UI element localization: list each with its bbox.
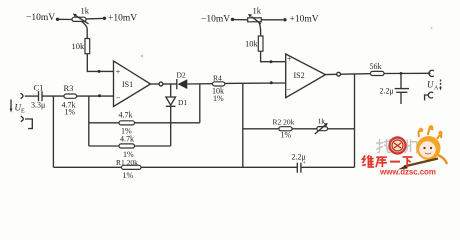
watermark: round badge: [388, 136, 406, 154]
wire junction down to feedback row1: [199, 84, 201, 123]
svg-text:R1 20k: R1 20k: [116, 158, 138, 167]
junction dot on - input wire: [98, 94, 101, 97]
wire pot1 right lead: [86, 17, 103, 20]
resistor 56k body: [371, 71, 385, 75]
potentiometer 1k (row) body: [317, 127, 328, 131]
svg-text:www.dzsc.com: www.dzsc.com: [379, 168, 436, 177]
potentiometer P1 1k body: [72, 17, 86, 21]
svg-text:1k: 1k: [253, 6, 262, 16]
svg-text:R4: R4: [213, 74, 222, 83]
junction dot on + input wire: [98, 70, 101, 73]
svg-text:−: −: [116, 93, 121, 102]
speck: [141, 55, 143, 57]
wire IS1 output: [151, 83, 159, 85]
wire terminal to C1: [25, 95, 39, 97]
svg-text:−10mV: −10mV: [26, 13, 55, 23]
resistor R4 body: [213, 82, 225, 86]
wire 56k to output terminal: [384, 72, 431, 74]
capacitor 2.2u (bottom) plates: [296, 163, 298, 173]
capacitor 2.2u output plates: [395, 88, 409, 90]
resistor 4.7k row2 body: [119, 144, 135, 148]
svg-text:1%: 1%: [123, 171, 134, 180]
pot arrow: [315, 125, 326, 134]
wire junction down to R1 row: [52, 96, 54, 167]
svg-text:R2 20k: R2 20k: [273, 118, 295, 127]
output terminal upper: [429, 70, 434, 76]
watermark: red text wei ku yi xia: [362, 155, 412, 167]
feedback row2 wire: [89, 145, 171, 147]
potentiometer P2 wiper arrow: [252, 17, 261, 24]
svg-text:−: −: [287, 86, 292, 95]
wire feedback vertical: [354, 74, 356, 167]
wire to D2: [163, 83, 177, 85]
input terminal upper: [21, 93, 24, 98]
junction dot: [400, 72, 403, 75]
op-amp IS1: [114, 61, 151, 107]
svg-text:E: E: [21, 109, 25, 115]
svg-text:+10mV: +10mV: [108, 14, 137, 24]
wire 10k to IS2 + input: [261, 51, 286, 62]
wire 10k to IS1 + input: [87, 54, 113, 72]
wire R4 to IS2 - input: [225, 82, 286, 84]
potentiometer P2 1k body: [248, 18, 262, 22]
svg-text:1%: 1%: [281, 131, 292, 140]
wire - node down to feedback rows: [88, 96, 90, 146]
svg-text:1%: 1%: [213, 94, 224, 103]
input terminal lower: [21, 116, 24, 121]
resistor 10k (vertical, left): [85, 39, 90, 54]
svg-text:1k: 1k: [318, 117, 326, 126]
svg-text:4.7k: 4.7k: [119, 111, 133, 120]
svg-text:1k: 1k: [81, 6, 90, 16]
wire C1 to R3: [42, 95, 64, 97]
wire cap stub down: [400, 92, 402, 104]
node dot left of P2: [231, 18, 234, 21]
svg-text:IS2: IS2: [294, 71, 305, 80]
svg-text:2.2μ: 2.2μ: [380, 87, 394, 96]
diode D2 (horizontal, cathode left): [176, 79, 178, 89]
resistor R1 20k body: [122, 165, 142, 169]
svg-text:10k: 10k: [72, 41, 86, 51]
resistor 10k (vertical, right): [258, 36, 263, 51]
wire P2 wiper down: [259, 22, 261, 36]
watermark: gray char pian: [405, 140, 417, 154]
svg-text:IS1: IS1: [122, 80, 133, 89]
svg-text:56k: 56k: [370, 62, 382, 71]
wire D2 to R4: [187, 83, 212, 85]
wire P1 wiper down: [82, 21, 88, 38]
svg-text:10k: 10k: [245, 39, 259, 49]
output node circle: [159, 82, 163, 86]
potentiometer P1 wiper arrow: [76, 16, 89, 24]
wire down to output cap: [400, 73, 402, 88]
op-amp IS2: [286, 54, 326, 98]
node dot right of P1: [103, 17, 106, 20]
svg-text:+10mV: +10mV: [290, 15, 319, 25]
capacitor C1 plates: [38, 91, 40, 101]
R2 row wire: [243, 128, 355, 130]
wire lower terminal hook: [25, 119, 32, 129]
svg-text:4.7k: 4.7k: [120, 135, 134, 144]
speck: [431, 27, 433, 29]
resistor 4.7k row1 body: [119, 121, 135, 125]
output node circle: [337, 72, 341, 76]
wire to 56k: [341, 73, 371, 76]
node dot right of P2: [283, 18, 286, 21]
svg-text:1%: 1%: [65, 108, 76, 117]
svg-text:C1: C1: [34, 83, 44, 93]
bottom row wire: [53, 166, 297, 168]
wire: [59, 18, 73, 20]
wire R3 to IS1 - input: [77, 95, 114, 97]
svg-text:D2: D2: [177, 71, 186, 80]
watermark: mascot: [398, 125, 447, 169]
output terminal lower: [428, 92, 433, 98]
wire pot2 right lead: [261, 19, 283, 21]
svg-text:+: +: [116, 67, 121, 76]
arrow UE: [10, 100, 12, 110]
diode D1 (vertical): [170, 84, 172, 97]
svg-text:D1: D1: [178, 98, 187, 107]
watermark: gray char zhao: [376, 139, 391, 153]
svg-text:3.3μ: 3.3μ: [31, 101, 45, 110]
svg-text:+: +: [287, 55, 292, 64]
svg-text:A: A: [434, 86, 439, 92]
wire: [234, 19, 248, 21]
feedback row1 wire: [89, 122, 200, 124]
svg-text:R3: R3: [64, 83, 74, 93]
junction dot: [270, 81, 273, 84]
resistor R3 body: [64, 94, 77, 98]
resistor R2 20k body: [279, 127, 292, 131]
junction dot on + input wire: [270, 60, 273, 63]
arrow UA (dashed): [440, 80, 442, 89]
svg-text:U: U: [427, 80, 434, 90]
node dot left of P1: [56, 18, 59, 21]
wire IS2 output: [326, 73, 337, 75]
svg-text:−10mV: −10mV: [201, 15, 230, 25]
wire junction down to R2 row and bottom row: [242, 83, 244, 167]
